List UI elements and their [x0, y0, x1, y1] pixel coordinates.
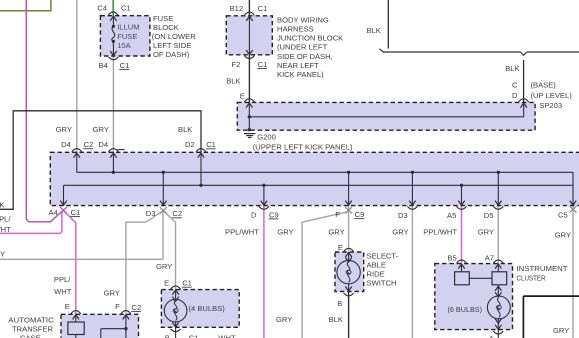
svg-text:AUTOMATIC: AUTOMATIC: [8, 315, 54, 324]
svg-text:GRY: GRY: [104, 288, 120, 297]
svg-text:E: E: [65, 302, 70, 311]
svg-text:D3: D3: [398, 211, 408, 220]
svg-text:SWITCH: SWITCH: [367, 278, 397, 287]
svg-text:B12: B12: [230, 4, 244, 13]
svg-text:B5: B5: [447, 254, 456, 263]
svg-text:BLK: BLK: [0, 200, 5, 209]
svg-text:INSTRUMENT: INSTRUMENT: [517, 264, 568, 273]
svg-text:BLK: BLK: [505, 64, 519, 73]
svg-text:WHT: WHT: [218, 333, 236, 338]
svg-text:ILLUM: ILLUM: [117, 22, 139, 31]
svg-text:E: E: [240, 91, 245, 100]
svg-text:D5: D5: [484, 211, 494, 220]
svg-text:PPL/: PPL/: [0, 214, 11, 223]
svg-text:GRY: GRY: [156, 262, 172, 271]
svg-text:GRY: GRY: [277, 228, 293, 237]
svg-text:(ON LOWER: (ON LOWER: [152, 32, 196, 41]
svg-text:CLUSTER: CLUSTER: [517, 273, 546, 282]
svg-text:BLOCK: BLOCK: [153, 23, 179, 32]
svg-text:A4: A4: [49, 208, 58, 217]
svg-text:D4: D4: [98, 140, 108, 149]
svg-text:GRY: GRY: [392, 228, 408, 237]
svg-text:NEAR LEFT: NEAR LEFT: [277, 61, 319, 70]
svg-text:GRY: GRY: [553, 326, 569, 335]
svg-text:GRY: GRY: [478, 228, 494, 237]
svg-text:F: F: [115, 302, 120, 311]
svg-text:RIDE: RIDE: [367, 270, 385, 279]
svg-text:GRY: GRY: [276, 315, 292, 324]
svg-text:LEFT SIDE: LEFT SIDE: [153, 41, 191, 50]
svg-text:GRY: GRY: [328, 228, 344, 237]
svg-text:BODY WIRING: BODY WIRING: [277, 16, 329, 25]
svg-text:C2: C2: [172, 209, 182, 218]
svg-text:D: D: [251, 210, 257, 219]
svg-text:A7: A7: [485, 254, 494, 263]
svg-text:D: D: [512, 91, 518, 100]
svg-text:GRY: GRY: [93, 125, 109, 134]
svg-text:C1: C1: [206, 140, 216, 149]
svg-text:C2: C2: [84, 140, 94, 149]
svg-text:C1: C1: [121, 3, 131, 12]
svg-text:OF DASH): OF DASH): [153, 50, 190, 59]
svg-text:F2: F2: [232, 60, 241, 69]
svg-text:G200: G200: [257, 132, 276, 141]
svg-text:C2: C2: [132, 303, 142, 312]
svg-text:A5: A5: [447, 211, 456, 220]
svg-text:SIDE OF DASH,: SIDE OF DASH,: [277, 52, 333, 61]
svg-text:PPL/: PPL/: [54, 275, 71, 284]
svg-text:(UNDER LEFT: (UNDER LEFT: [277, 43, 328, 52]
svg-text:B: B: [165, 333, 170, 338]
svg-text:C1: C1: [258, 4, 268, 13]
svg-text:C5: C5: [558, 210, 568, 219]
svg-text:C1: C1: [182, 279, 192, 288]
svg-text:(4 BULBS): (4 BULBS): [189, 304, 226, 313]
svg-text:C4: C4: [97, 3, 107, 12]
svg-text:(BASE): (BASE): [531, 81, 557, 90]
svg-text:D4: D4: [61, 140, 71, 149]
svg-text:BLK: BLK: [226, 77, 240, 86]
svg-text:C: C: [512, 81, 518, 90]
svg-text:D2: D2: [185, 140, 195, 149]
svg-text:C9: C9: [355, 210, 365, 219]
svg-text:C1: C1: [189, 333, 199, 338]
svg-text:GRY: GRY: [555, 230, 571, 239]
svg-text:C9: C9: [269, 210, 279, 219]
svg-text:PPL/WHT: PPL/WHT: [225, 228, 259, 237]
svg-text:JUNCTION BLOCK: JUNCTION BLOCK: [277, 34, 343, 43]
svg-text:(UP LEVEL): (UP LEVEL): [531, 91, 573, 100]
svg-text:SELECT-: SELECT-: [367, 252, 399, 261]
svg-text:SP203: SP203: [539, 101, 562, 110]
svg-text:BLK: BLK: [178, 125, 192, 134]
svg-text:C1: C1: [71, 208, 81, 217]
svg-text:10A: 10A: [117, 41, 131, 50]
svg-text:B4: B4: [99, 61, 108, 70]
svg-text:HARNESS: HARNESS: [277, 25, 314, 34]
svg-text:GRY: GRY: [0, 249, 5, 258]
svg-text:GRY: GRY: [56, 125, 72, 134]
svg-text:E: E: [164, 279, 169, 288]
svg-text:F: F: [335, 210, 340, 219]
svg-text:PPL/WHT: PPL/WHT: [423, 228, 457, 237]
svg-text:WHT: WHT: [54, 287, 72, 296]
svg-text:TRANSFER: TRANSFER: [12, 324, 53, 333]
svg-text:C1: C1: [258, 60, 268, 69]
svg-text:WHT: WHT: [0, 225, 11, 234]
svg-text:D3: D3: [146, 209, 156, 218]
svg-text:BLK: BLK: [329, 315, 343, 324]
svg-text:(6 BULBS): (6 BULBS): [448, 305, 483, 314]
svg-text:CASE: CASE: [20, 333, 41, 338]
svg-text:(UPPER LEFT KICK PANEL): (UPPER LEFT KICK PANEL): [253, 142, 353, 151]
svg-text:E: E: [338, 243, 343, 252]
svg-text:ABLE: ABLE: [367, 261, 386, 270]
svg-text:C1: C1: [120, 61, 130, 70]
svg-text:FUSE: FUSE: [117, 32, 137, 41]
svg-text:B: B: [337, 299, 342, 308]
svg-text:BLK: BLK: [367, 26, 381, 35]
svg-text:KICK PANEL): KICK PANEL): [277, 70, 324, 79]
svg-text:FUSE: FUSE: [153, 14, 173, 23]
